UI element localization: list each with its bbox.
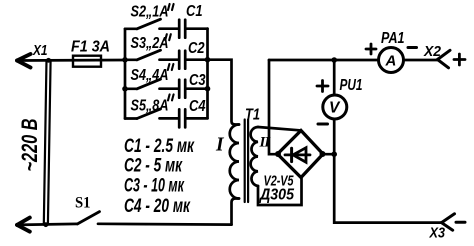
wire bridge right corner to minus line xyxy=(323,153,335,156)
switch S1 blade xyxy=(78,212,100,224)
transformer core line 2 xyxy=(247,120,249,203)
wire ammeter to X2 xyxy=(404,59,438,62)
wire S1 to transformer xyxy=(98,222,232,226)
svg-text:C3 - 10 мк: C3 - 10 мк xyxy=(124,176,185,197)
wire voltmeter down to minus node xyxy=(333,119,336,154)
wire secondary bottom U to bridge bottom corner xyxy=(258,178,302,205)
svg-text:S2„1A: S2„1A xyxy=(131,4,169,21)
wire row1 mid xyxy=(160,27,178,30)
capacitor C1 plates xyxy=(178,20,181,38)
node bridge right corner xyxy=(320,151,326,157)
capacitor bank right rail xyxy=(206,29,209,119)
svg-text:C1: C1 xyxy=(186,3,203,20)
svg-text:S5„8A: S5„8A xyxy=(131,98,169,115)
wire bridge left corner up to plus bus xyxy=(269,60,278,154)
svg-text:I: I xyxy=(215,135,225,156)
wire secondary top to bridge top corner xyxy=(258,127,300,130)
connector X3 fork xyxy=(442,214,455,230)
svg-text:X3: X3 xyxy=(429,225,446,242)
row2: wire stub xyxy=(125,58,137,61)
svg-text:F1 3A: F1 3A xyxy=(71,39,110,56)
svg-text:S4„4A: S4„4A xyxy=(131,67,169,84)
connector X2 fork xyxy=(438,50,451,68)
row1: wire stub xyxy=(125,27,137,30)
svg-text:S3„2A: S3„2A xyxy=(131,35,169,52)
transformer core line 1 xyxy=(244,120,246,203)
svg-text:X1: X1 xyxy=(32,42,47,59)
wire primary bottom to bottom bus xyxy=(232,199,240,225)
switch S3 blade xyxy=(137,50,161,60)
node minus junction xyxy=(331,151,337,157)
wire row4 mid xyxy=(160,117,178,120)
plus sign PA1 xyxy=(366,44,376,54)
node X1 junction xyxy=(46,58,51,63)
svg-text:~220 В: ~220 В xyxy=(17,119,42,172)
switch S5 blade xyxy=(137,109,161,119)
svg-text:V: V xyxy=(329,100,341,117)
plus sign X2 xyxy=(454,54,465,65)
voltmeter PU1 circle xyxy=(323,95,347,119)
wire feeder to T1 primary xyxy=(208,60,240,125)
capacitor bank left rail xyxy=(124,29,127,119)
node right rail row3 junction xyxy=(205,86,211,92)
row3: wire stub xyxy=(125,87,137,90)
wire row1 right xyxy=(186,27,207,30)
switch S2 blade xyxy=(137,19,161,29)
svg-text:C1 - 2.5 мк: C1 - 2.5 мк xyxy=(124,136,195,157)
minus sign PU1 xyxy=(318,123,328,126)
svg-text:T1: T1 xyxy=(245,107,260,124)
row4: wire stub xyxy=(125,117,137,120)
svg-text:C3: C3 xyxy=(189,72,206,89)
capacitor C4 plates xyxy=(178,109,181,127)
wire row4 right xyxy=(186,117,207,120)
connector bottom-left arrow xyxy=(17,218,30,232)
svg-text:X2: X2 xyxy=(423,43,442,60)
wire bottom left xyxy=(17,224,78,225)
ammeter PA1 circle xyxy=(379,48,404,73)
wire row2 right xyxy=(186,58,207,61)
node right rail row2 junction xyxy=(205,57,211,63)
node left rail row2 junction xyxy=(122,57,128,63)
transformer T1 secondary winding xyxy=(251,127,258,186)
wire plus bus to ammeter xyxy=(269,59,379,62)
wire row3 right xyxy=(186,87,207,90)
connector X1 arrow xyxy=(17,54,31,68)
svg-text:C2 - 5 мк: C2 - 5 мк xyxy=(124,156,183,177)
node bus junction xyxy=(331,57,337,63)
minus sign X3 xyxy=(456,221,465,224)
svg-text:C4: C4 xyxy=(189,98,206,115)
svg-text:Д305: Д305 xyxy=(258,187,294,204)
wire row2 mid xyxy=(160,58,178,61)
transformer T1 primary winding xyxy=(230,125,239,199)
wire double vertical mains line A xyxy=(44,60,47,225)
svg-text:PA1: PA1 xyxy=(381,30,405,47)
wire bus to voltmeter xyxy=(333,60,336,95)
svg-text:PU1: PU1 xyxy=(340,77,363,94)
diode triangle xyxy=(293,148,306,163)
node bottom junction xyxy=(43,222,48,227)
diode symbol line xyxy=(285,153,310,156)
capacitor C2 plates xyxy=(178,51,181,69)
wire minus line down to X3 xyxy=(334,154,441,222)
diode bridge V2-V5 diamond xyxy=(278,131,324,178)
switch S4 blade xyxy=(137,79,161,89)
capacitor C3 plates xyxy=(178,80,181,98)
svg-text:A: A xyxy=(385,53,397,70)
svg-text:S1: S1 xyxy=(75,195,91,212)
svg-text:C2: C2 xyxy=(188,40,205,57)
diode cathode bar xyxy=(290,148,293,161)
fuse F1 xyxy=(73,56,101,67)
wire row3 mid xyxy=(160,87,178,90)
minus sign PA1 xyxy=(408,46,417,49)
wire double vertical mains line B xyxy=(48,60,51,225)
plus sign PU1 xyxy=(317,81,328,92)
node left rail row3 junction xyxy=(122,86,128,92)
node bridge left corner xyxy=(275,151,281,157)
wire X1 to fuse to left rail xyxy=(17,59,125,62)
svg-text:C4 - 20 мк: C4 - 20 мк xyxy=(124,196,191,217)
